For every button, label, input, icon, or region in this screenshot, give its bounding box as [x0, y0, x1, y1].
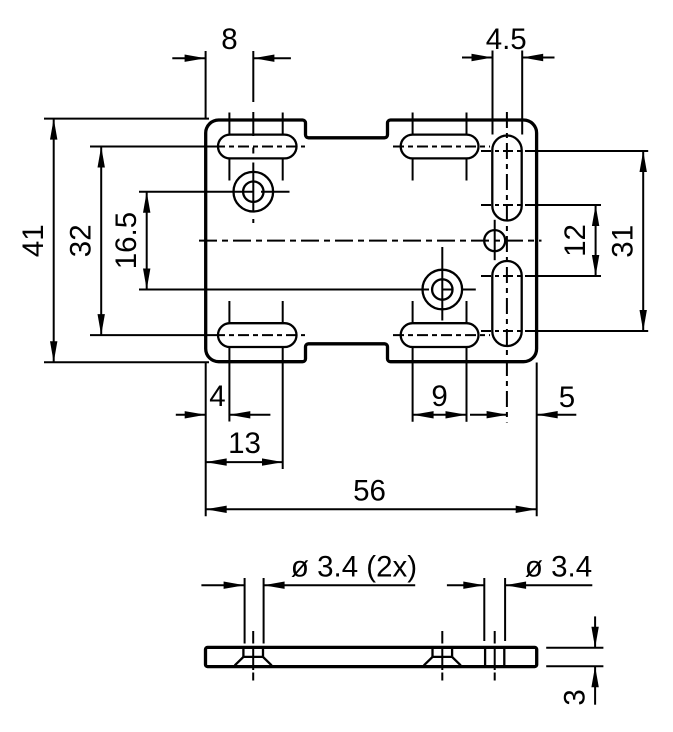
svg-text:41: 41 — [17, 224, 50, 257]
extension line 12 bottom — [481, 275, 536, 277]
centerline bottom-left slot — [90, 334, 214, 336]
dimension 32 line — [100, 147, 102, 336]
side view countersunk hole left — [242, 647, 244, 657]
centerline tick above top slot x=282.7 — [282, 113, 284, 135]
slot top-left — [218, 135, 297, 159]
extension line x=229.4 to 4-dim — [228, 348, 230, 422]
centerline tick above bottom slot x=466.5 — [466, 301, 468, 323]
vertical slot upper right — [492, 136, 521, 221]
dimension 3 extension top — [546, 647, 603, 649]
svg-text:8: 8 — [221, 23, 237, 56]
svg-text:32: 32 — [65, 224, 98, 257]
small hole circle right — [484, 230, 505, 251]
centerline top-right slot — [393, 146, 490, 148]
dimension 4.5 line — [462, 57, 493, 59]
side view outline — [206, 647, 537, 666]
crosshair horizontal bottom-right circle — [139, 289, 429, 291]
extension line 31 top — [481, 150, 536, 152]
extension line 12 top — [481, 204, 536, 206]
side view centerline middle hole — [441, 631, 443, 644]
side view plain hole right — [484, 647, 486, 666]
centerline tick above bottom slot x=229.4 — [228, 301, 230, 323]
extension line 31 bottom — [481, 330, 536, 332]
svg-text:12: 12 — [559, 224, 592, 257]
centerline bottom-right slot — [393, 334, 490, 336]
vertical slot lower right — [492, 261, 521, 346]
centerline tick below top slot x=412.6 — [412, 158, 414, 180]
dimension 3 line — [594, 616, 596, 647]
dimension dia3.4(2x) extension lines — [244, 578, 246, 644]
dimension dia3.4 extension lines — [483, 578, 485, 641]
countersunk hole circle bottom-right outer — [423, 270, 463, 310]
dimension 3 extension bottom — [546, 665, 603, 667]
side view countersunk hole middle — [431, 647, 433, 657]
centerline tick below top slot x=282.7 — [282, 158, 284, 180]
svg-text:4: 4 — [209, 380, 225, 413]
dimension dia3.4 line — [447, 584, 484, 586]
svg-text:13: 13 — [228, 427, 261, 460]
slot bottom-right — [401, 323, 479, 347]
svg-text:ø 3.4: ø 3.4 — [525, 551, 592, 584]
dimension 13 line — [206, 461, 283, 463]
dimension 4.5 extension right — [521, 51, 523, 135]
svg-text:9: 9 — [431, 380, 447, 413]
dimension 12 line — [595, 205, 597, 276]
dimension 41 extension bottom — [44, 361, 209, 363]
centerline tick above top slot x=412.6 — [412, 113, 414, 135]
centerline tick below top slot x=466.5 — [466, 158, 468, 180]
centerline top-left slot — [90, 146, 214, 148]
extension line x=282.7 to 13-dim — [282, 348, 284, 470]
side view centerline right hole — [494, 631, 496, 644]
countersunk hole circle top-left outer — [234, 172, 274, 212]
countersunk hole circle bottom-right inner — [432, 279, 452, 299]
dimension 41 extension top — [44, 118, 209, 120]
dimension 8 line — [172, 57, 205, 59]
side view centerline left hole — [252, 631, 254, 644]
centerline vertical slots — [506, 112, 508, 423]
slot bottom-left — [218, 323, 297, 347]
dimension 9 line — [413, 414, 467, 416]
dimension dia3.4(2x) line — [201, 584, 244, 586]
centerline tick above top slot x=466.5 — [466, 113, 468, 135]
svg-text:3: 3 — [558, 689, 591, 705]
svg-text:4.5: 4.5 — [486, 23, 527, 56]
dimension 4.5 extension left — [492, 51, 494, 135]
crosshair vertical bottom-right circle — [441, 247, 443, 321]
dimension 56 line — [206, 508, 537, 510]
crosshair vertical top-left circle — [252, 51, 254, 102]
extension line x=466.5 to 9-dim — [466, 348, 468, 422]
centerline tick below top slot x=229.4 — [228, 158, 230, 180]
dimension 5 line — [470, 414, 508, 416]
crosshair horizontal top-left circle — [139, 191, 253, 193]
slot top-right — [401, 135, 479, 159]
plate outline top view — [206, 120, 537, 362]
extension line plate right edge — [536, 363, 538, 517]
svg-text:31: 31 — [607, 225, 640, 258]
dimension 31 line — [642, 151, 644, 331]
countersunk hole circle top-left inner — [243, 182, 263, 202]
svg-text:ø 3.4 (2x): ø 3.4 (2x) — [291, 551, 417, 584]
dimension 16.5 line — [146, 192, 148, 290]
dimension 4 line — [176, 414, 206, 416]
main horizontal centerline — [199, 240, 542, 242]
svg-text:5: 5 — [559, 381, 575, 414]
centerline tick above bottom slot x=412.6 — [412, 301, 414, 323]
svg-text:16.5: 16.5 — [110, 212, 143, 269]
dimension 8 extension left — [205, 51, 207, 119]
centerline tick above top slot x=229.4 — [228, 113, 230, 135]
extension line x=412.6 to 9-dim — [412, 348, 414, 422]
extension line plate left edge — [205, 363, 207, 517]
centerline tick above bottom slot x=282.7 — [282, 301, 284, 323]
crosshair vertical small circle — [494, 220, 496, 260]
svg-text:56: 56 — [353, 475, 386, 508]
dimension 41 line — [53, 119, 55, 363]
